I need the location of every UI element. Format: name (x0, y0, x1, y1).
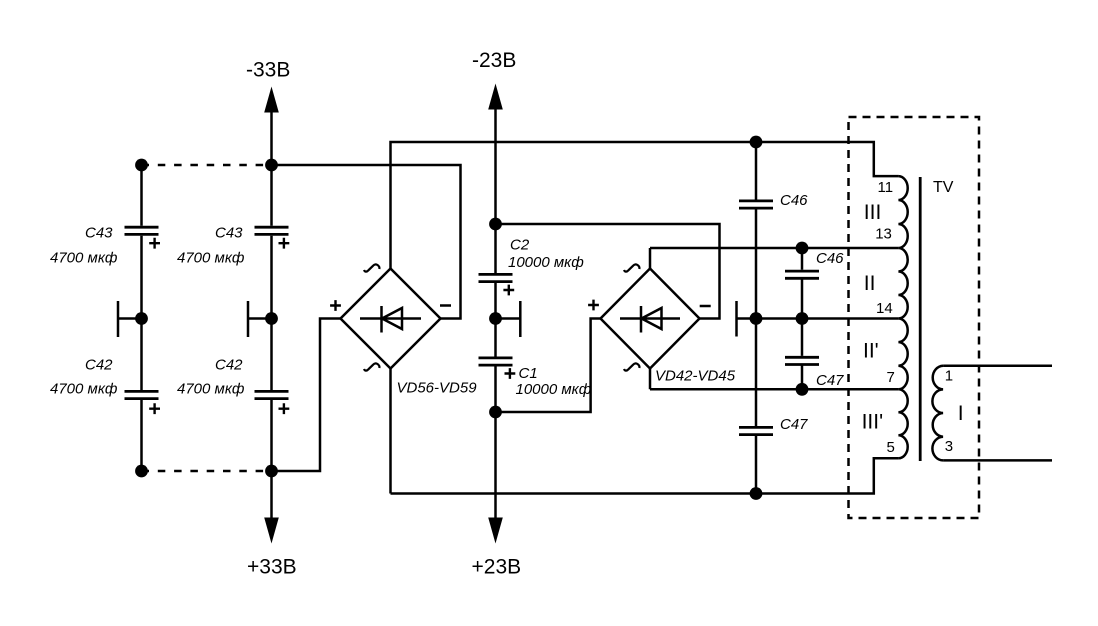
svg-text:TV: TV (933, 179, 954, 196)
svg-text:C2: C2 (510, 237, 530, 254)
svg-text:4700 мкф: 4700 мкф (50, 381, 118, 398)
svg-text:C42: C42 (85, 357, 113, 374)
svg-text:14: 14 (876, 300, 893, 317)
svg-text:11: 11 (878, 179, 894, 196)
svg-text:-33В: -33В (246, 59, 290, 82)
svg-text:VD56-VD59: VD56-VD59 (397, 380, 478, 397)
svg-text:4700 мкф: 4700 мкф (177, 250, 245, 267)
svg-text:+23В: +23В (472, 556, 522, 579)
svg-text:I: I (958, 402, 964, 425)
svg-text:C46: C46 (780, 192, 808, 209)
svg-text:5: 5 (887, 439, 895, 456)
svg-text:C46: C46 (816, 250, 844, 267)
svg-text:1: 1 (945, 368, 953, 385)
svg-text:C43: C43 (85, 225, 113, 242)
svg-text:4700 мкф: 4700 мкф (177, 381, 245, 398)
svg-text:10000 мкф: 10000 мкф (516, 381, 592, 398)
svg-text:III': III' (862, 411, 884, 434)
svg-text:+33В: +33В (247, 556, 297, 579)
svg-text:C47: C47 (780, 416, 808, 433)
svg-text:II': II' (863, 340, 879, 363)
svg-text:C1: C1 (519, 365, 538, 382)
svg-text:10000 мкф: 10000 мкф (508, 254, 584, 271)
svg-text:C47: C47 (816, 372, 844, 389)
svg-text:C42: C42 (215, 357, 243, 374)
svg-text:II: II (864, 272, 876, 295)
svg-text:-23В: -23В (472, 49, 516, 72)
svg-text:VD42-VD45: VD42-VD45 (655, 368, 736, 385)
svg-text:3: 3 (945, 438, 953, 455)
svg-text:III: III (864, 201, 882, 224)
svg-text:7: 7 (887, 369, 895, 386)
svg-text:13: 13 (875, 226, 892, 243)
svg-text:C43: C43 (215, 225, 243, 242)
svg-text:4700 мкф: 4700 мкф (50, 250, 118, 267)
